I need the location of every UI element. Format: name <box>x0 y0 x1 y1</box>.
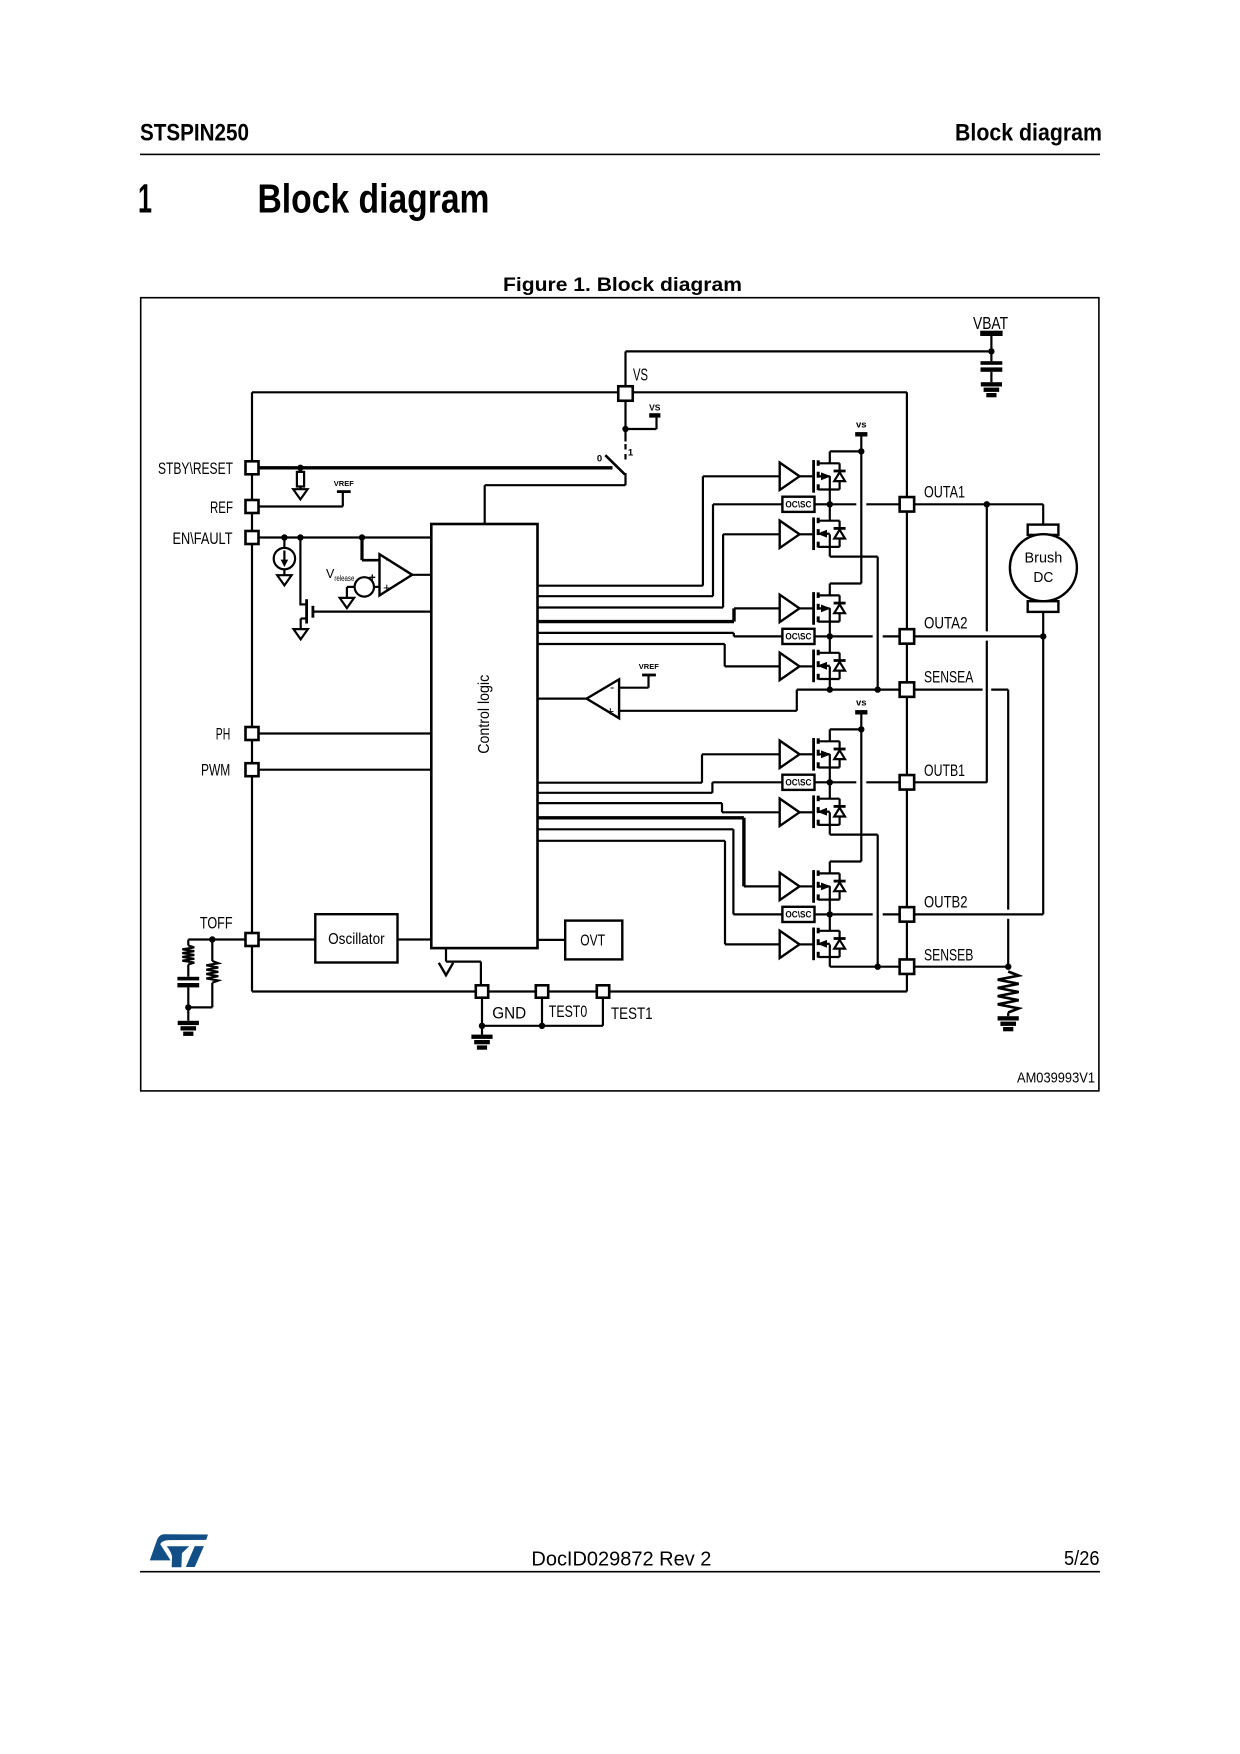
wire A1 high-side source to output node <box>829 476 831 504</box>
svg-text:vs: vs <box>856 419 867 430</box>
wire right pin column (chip boundary right) <box>906 392 908 991</box>
resistor R-TOFF1 <box>182 946 194 965</box>
op-amp U1 (EN fault comparator) <box>380 552 413 596</box>
pin square SENSEA <box>900 682 915 697</box>
pin square OUTB2 <box>900 907 915 922</box>
body diode of B1 high-side <box>834 741 846 767</box>
svg-text:OUTA2: OUTA2 <box>924 614 968 633</box>
block OVT <box>565 921 622 960</box>
power MOSFET A2 high-side <box>814 592 840 625</box>
wire EN to discharge MOSFET drain <box>299 538 301 606</box>
wire left pin column (chip boundary left) <box>251 392 253 991</box>
wire OUTA2 to OUTB2 <box>915 636 1043 914</box>
OC\SC block A2 <box>782 629 814 644</box>
gate driver buffer A2 low-side <box>780 653 813 680</box>
wire OUTA1 to OUTB1 (with hops) <box>986 504 988 782</box>
wire resistor to ground <box>299 487 301 490</box>
header rule <box>140 154 1100 156</box>
wire TEST pins ground tie <box>482 1025 603 1027</box>
svg-text:VBAT: VBAT <box>973 313 1008 333</box>
pin square TOFF <box>246 933 259 946</box>
pin square TEST0 <box>536 985 548 997</box>
wire SENSEA to sense resistor column (with hop) <box>915 690 1008 967</box>
wire OUTB2 net to pin <box>830 913 907 915</box>
wire V_release return drop <box>346 587 348 598</box>
svg-text:SENSEB: SENSEB <box>924 946 973 965</box>
wire TEST1 to ground tie <box>602 998 604 1026</box>
wire OC\SC A1 sense <box>537 504 782 596</box>
node output B1 <box>827 779 833 785</box>
wire capacitor to ground node <box>187 987 189 1007</box>
wire current source to ground <box>283 569 285 575</box>
node OUTA2/OUTB2 tie <box>1040 633 1046 639</box>
footer rule <box>140 1571 1100 1573</box>
wire VS rail drop to VS pin <box>624 351 626 386</box>
node VBAT junction <box>988 348 994 354</box>
wire comparator inverting input to VREF <box>619 687 648 689</box>
svg-text:OUTA1: OUTA1 <box>924 483 965 502</box>
wire TOFF ground drop <box>187 1007 189 1020</box>
pin square PWM <box>246 763 259 776</box>
svg-text:PWM: PWM <box>201 761 230 780</box>
wire R-TOFF1 to capacitor <box>187 965 189 977</box>
node TEST0 tie <box>539 1023 545 1029</box>
op-amp U2 (current sense comparator) <box>587 679 620 718</box>
wire drop to GND pin square <box>480 962 482 985</box>
wire B2 low source to SENSEB line <box>829 958 831 967</box>
wire gate control A1-low <box>537 534 779 607</box>
wire MOSFET gate from control logic <box>314 610 431 612</box>
body diode of A1 high-side <box>834 463 846 489</box>
svg-text:VS: VS <box>649 403 661 413</box>
resistor R-TOFF2 <box>206 961 218 983</box>
node TOFF ground junction <box>185 1004 191 1010</box>
wire A1 rail to SENSEA <box>877 557 879 690</box>
wire A2 low source to SENSEA line <box>829 680 831 690</box>
svg-text:1: 1 <box>628 448 634 459</box>
svg-text:Figure 1. Block diagram: Figure 1. Block diagram <box>503 275 742 296</box>
node TOFF RC junction <box>209 936 215 942</box>
wire switch pole upper <box>624 429 626 442</box>
figure frame <box>141 298 1099 1091</box>
power MOSFET A2 low-side <box>814 650 840 683</box>
svg-text:AM039993V1: AM039993V1 <box>1017 1070 1095 1087</box>
wire SENSEB net <box>830 966 1008 968</box>
wire comparator non-inverting input from SENSEA <box>619 710 797 712</box>
wire VS top rail (chip boundary top) <box>252 391 907 393</box>
block Control logic <box>431 524 537 948</box>
svg-text:PH: PH <box>216 725 231 744</box>
svg-text:-: - <box>610 680 614 695</box>
svg-text:OC\SC: OC\SC <box>785 778 811 788</box>
svg-text:GND: GND <box>492 1004 526 1023</box>
wire output node to A1 low-side drain <box>829 504 831 520</box>
wire to current source <box>283 538 285 549</box>
svg-text:OC\SC: OC\SC <box>785 632 811 642</box>
svg-text:Brush: Brush <box>1025 550 1063 567</box>
wire gate control B1-high <box>537 754 779 782</box>
gate driver buffer B2 high-side <box>780 873 813 900</box>
body diode of A2 high-side <box>834 595 846 621</box>
wire GND tie to ground symbol <box>481 1026 483 1035</box>
VS supply symbol at switch <box>649 403 661 418</box>
pin square SENSEB <box>900 959 915 974</box>
capacitor C-TOFF <box>177 977 199 988</box>
wire OC\SC A2 sense <box>537 633 782 637</box>
wire B1 bottom rail <box>830 833 878 835</box>
power MOSFET A1 high-side <box>814 460 840 493</box>
ground sense resistor <box>998 1016 1019 1031</box>
VBAT supply bar <box>980 331 1002 336</box>
pin square EN\FAULT <box>246 531 259 544</box>
svg-text:OVT: OVT <box>580 933 605 950</box>
wire OC\SC B2 to output node <box>815 913 830 915</box>
wire REF <box>259 505 343 507</box>
wire GND pin down <box>481 998 483 1026</box>
wire STBY\RESET to switch (thick) <box>252 466 613 469</box>
wire OUTB1 net to pin <box>830 781 907 783</box>
wire MOSFET source to ground <box>300 619 302 630</box>
resistor STBY pull-down <box>297 472 304 487</box>
wire B1 high-side source to output node <box>829 754 831 782</box>
wire A1 low-side body to source <box>829 534 831 547</box>
node sense resistor <box>1005 964 1011 970</box>
wire switch output <box>485 484 626 486</box>
wire drain leg A1 <box>829 451 831 463</box>
wire output node to B2 low-side drain <box>829 914 831 930</box>
wire dashed switch position 1 <box>624 444 626 464</box>
OC\SC block B2 <box>782 907 814 922</box>
node SENSEB / B1 rail <box>875 964 881 970</box>
wire A1 bottom rail <box>830 555 878 557</box>
wire OC\SC B2 sense <box>537 829 782 914</box>
wire drain rail B2 <box>830 860 862 862</box>
VREF supply symbol at REF <box>334 479 354 492</box>
ground STBY pull-down <box>293 489 307 499</box>
wire SENSEA feedback riser <box>796 690 798 711</box>
wire VS pin to switch node <box>624 401 626 429</box>
svg-text:Oscillator: Oscillator <box>328 931 385 948</box>
power MOSFET A1 low-side <box>814 517 840 550</box>
ground discharge MOSFET <box>294 629 308 639</box>
svg-text:OC\SC: OC\SC <box>785 500 811 510</box>
ground V_release <box>340 598 354 608</box>
wire PH to control logic <box>259 732 432 734</box>
wire TEST0 to ground tie <box>541 998 543 1026</box>
ground GND pin <box>471 1035 492 1050</box>
wire ground tail to GND pin <box>446 960 481 962</box>
wire gate control A2-high (thick) <box>537 608 779 621</box>
svg-text:1: 1 <box>138 176 152 222</box>
svg-text:STBY\RESET: STBY\RESET <box>158 459 233 478</box>
power MOSFET B2 low-side <box>814 928 840 961</box>
wire B1 low source drop <box>829 826 831 835</box>
wire V_release to comparator non-inverting input <box>374 586 380 588</box>
motor M1 (Brush DC) <box>1010 534 1077 601</box>
OC\SC block B1 <box>782 775 814 790</box>
pin square REF <box>246 500 259 513</box>
svg-text:+: + <box>607 704 615 719</box>
svg-text:OUTB1: OUTB1 <box>924 761 965 780</box>
node EN MOSFET tap <box>297 534 303 540</box>
body diode of B1 low-side <box>834 799 846 825</box>
power MOSFET B1 high-side <box>814 738 840 771</box>
wire drain leg B2 <box>829 862 831 874</box>
ground VBAT <box>981 382 1002 397</box>
svg-text:VREF: VREF <box>334 479 354 488</box>
node output A1 <box>827 501 833 507</box>
wire R-TOFF2 down <box>211 983 213 1008</box>
wire gate control B1-low <box>537 803 779 812</box>
voltage source V_release <box>355 571 376 597</box>
power MOSFET B2 high-side <box>814 870 840 903</box>
VS supply symbol for half-bridge A1 <box>855 419 867 451</box>
svg-text:OC\SC: OC\SC <box>785 910 811 920</box>
wire gate control B2-high (thick) <box>537 818 779 887</box>
wire drain leg A2 <box>829 584 831 596</box>
switch blade SW1 <box>605 455 625 474</box>
wire to resistor R-TOFF1 <box>187 940 189 946</box>
node OUTA1/OUTB1 tie <box>984 501 990 507</box>
wire output node to B1 low-side drain <box>829 782 831 798</box>
node output B2 <box>827 911 833 917</box>
ground current source <box>277 575 291 585</box>
wire Oscillator to control logic <box>398 938 432 940</box>
wire OUTA2 to motor <box>915 635 1043 637</box>
power MOSFET B1 low-side <box>814 795 840 828</box>
svg-text:0: 0 <box>597 454 602 465</box>
wire A2 high-side source to output node <box>829 608 831 636</box>
node GND tie <box>479 1023 485 1029</box>
wire OC\SC A2 to output node <box>815 635 830 637</box>
ground TOFF network <box>178 1021 199 1036</box>
body diode of A1 low-side <box>834 521 846 547</box>
wire capacitor to ground <box>990 372 992 382</box>
wire VBAT down <box>990 336 992 361</box>
pin square OUTA1 <box>900 497 915 512</box>
pin square PH <box>246 727 259 740</box>
block Oscillator <box>315 914 397 962</box>
svg-text:+: + <box>383 580 391 595</box>
wire PWM to control logic <box>259 769 432 771</box>
wire B1 low-side body to source <box>829 812 831 825</box>
gate driver buffer A1 low-side <box>780 521 813 548</box>
node output A2 <box>827 633 833 639</box>
gate driver buffer B1 high-side <box>780 741 813 768</box>
node EN current source tap <box>281 534 287 540</box>
wire V_release return <box>347 586 355 588</box>
wire output node to A2 low-side drain <box>829 636 831 652</box>
wire VS stub riser <box>655 418 657 429</box>
OC\SC block A1 <box>782 497 814 512</box>
svg-text:EN\FAULT: EN\FAULT <box>173 529 233 548</box>
wire to VS stub <box>626 428 657 430</box>
node switch supply junction <box>622 426 628 432</box>
VS supply symbol for half-bridge B1 <box>855 697 867 729</box>
wire REF riser to VREF <box>342 492 344 506</box>
wire VS rail down to A2 <box>860 451 862 583</box>
wire A2 low-side body to source <box>829 666 831 679</box>
motor M1 terminal top <box>1028 525 1059 535</box>
footer ST logo <box>150 1534 208 1567</box>
gate driver buffer A2 high-side <box>780 595 813 622</box>
body diode of B2 low-side <box>834 931 846 957</box>
wire OC\SC A1 to output node <box>815 503 830 505</box>
transistor Q1 (EN discharge MOSFET) <box>300 599 313 623</box>
svg-text:5/26: 5/26 <box>1064 1548 1100 1570</box>
pin square TEST1 <box>597 985 609 997</box>
svg-text:VREF: VREF <box>639 662 659 671</box>
gate driver buffer B1 low-side <box>780 799 813 826</box>
signal ground arrow <box>439 963 453 975</box>
svg-text:TOFF: TOFF <box>200 914 233 933</box>
wire TOFF to Oscillator <box>259 938 316 940</box>
resistor R-SENSE <box>998 972 1019 1013</box>
node STBY pull-down tap <box>297 465 303 471</box>
wire OUTA1 net to pin <box>830 503 907 505</box>
wire sense resistor to ground <box>1007 1013 1009 1017</box>
wire switch output into control logic <box>484 485 486 524</box>
wire comparator output to control logic <box>412 574 431 576</box>
wire VS rail down to B2 <box>860 729 862 861</box>
pin square STBY\RESET <box>246 461 259 474</box>
current source I-pullup <box>274 548 295 569</box>
wire B1 rail to SENSEB <box>877 835 879 967</box>
pin square GND <box>476 985 488 997</box>
wire motor bottom to OUTA2 <box>1042 612 1044 637</box>
svg-text:vs: vs <box>856 697 867 708</box>
wire EN to comparator inverting input <box>360 538 363 561</box>
svg-text:DocID029872 Rev 2: DocID029872 Rev 2 <box>531 1549 711 1571</box>
wire B2 high-side source to output node <box>829 886 831 914</box>
wire comparator inverting input <box>362 559 380 562</box>
wire OUTA1 to motor <box>915 504 1043 524</box>
wire to resistor R-TOFF2 <box>211 940 213 962</box>
svg-text:TEST0: TEST0 <box>549 1002 587 1021</box>
VREF supply symbol at sense comparator <box>639 662 659 675</box>
svg-text:Block diagram: Block diagram <box>258 176 490 222</box>
wire OC\SC B1 sense <box>537 782 782 793</box>
svg-text:STSPIN250: STSPIN250 <box>140 120 249 147</box>
wire drain rail B1 <box>830 728 862 730</box>
svg-text:VS: VS <box>633 365 648 385</box>
svg-text:Block diagram: Block diagram <box>955 120 1102 147</box>
capacitor VBAT bulk <box>981 361 1003 372</box>
pin square OUTA2 <box>900 629 915 644</box>
wire A1 low source drop <box>829 548 831 557</box>
wire control logic to OVT <box>538 939 566 941</box>
wire control logic ground tail <box>445 948 447 962</box>
wire TOFF external net <box>188 938 252 940</box>
wire drain leg B1 <box>829 729 831 741</box>
node VS rail A1 <box>858 448 864 454</box>
svg-text:OUTB2: OUTB2 <box>924 893 968 912</box>
node EN comparator tap <box>359 534 365 540</box>
gate driver buffer A1 high-side <box>780 463 813 490</box>
svg-text:Control logic: Control logic <box>476 675 493 754</box>
wire gate control A1-high <box>537 476 779 585</box>
wire gate control A2-low <box>537 644 779 666</box>
node VS rail B1 <box>858 726 864 732</box>
svg-text:SENSEA: SENSEA <box>924 668 974 687</box>
wire SENSEA net <box>797 688 907 690</box>
wire B2 low-side body to source <box>829 944 831 957</box>
wire EN\FAULT to control logic <box>259 536 432 538</box>
gate driver buffer B2 low-side <box>780 931 813 958</box>
body diode of A2 low-side <box>834 653 846 679</box>
wire drain rail A1 <box>830 450 862 452</box>
wire drain rail A2 <box>830 582 862 584</box>
wire to pull-down resistor <box>299 468 301 472</box>
wire switch pole lower <box>624 473 626 485</box>
node SENSEA / A1 rail <box>875 686 881 692</box>
motor M1 terminal bottom <box>1028 601 1059 612</box>
pin square OUTB1 <box>900 775 915 790</box>
wire OC\SC B1 to output node <box>815 781 830 783</box>
svg-text:TEST1: TEST1 <box>611 1004 653 1023</box>
wire R-TOFF2 to ground node <box>188 1006 212 1008</box>
body diode of B2 high-side <box>834 873 846 899</box>
wire bottom pin rail (chip boundary bottom) <box>252 990 907 992</box>
wire VREF stub <box>647 676 649 688</box>
svg-text:DC: DC <box>1033 569 1053 586</box>
node SENSEA / A2 source <box>827 686 833 692</box>
wire OUTB1 to tie point <box>915 781 987 783</box>
wire VBAT rail to VS <box>626 350 992 352</box>
wire sense comparator output to control logic <box>537 697 586 699</box>
svg-text:-: - <box>386 552 390 567</box>
pin square VS <box>618 386 633 401</box>
svg-text:REF: REF <box>210 498 233 517</box>
svg-text:+: + <box>369 571 376 585</box>
wire gate control B2-low <box>537 841 779 945</box>
wire OUTA2 net to pin <box>830 635 907 637</box>
